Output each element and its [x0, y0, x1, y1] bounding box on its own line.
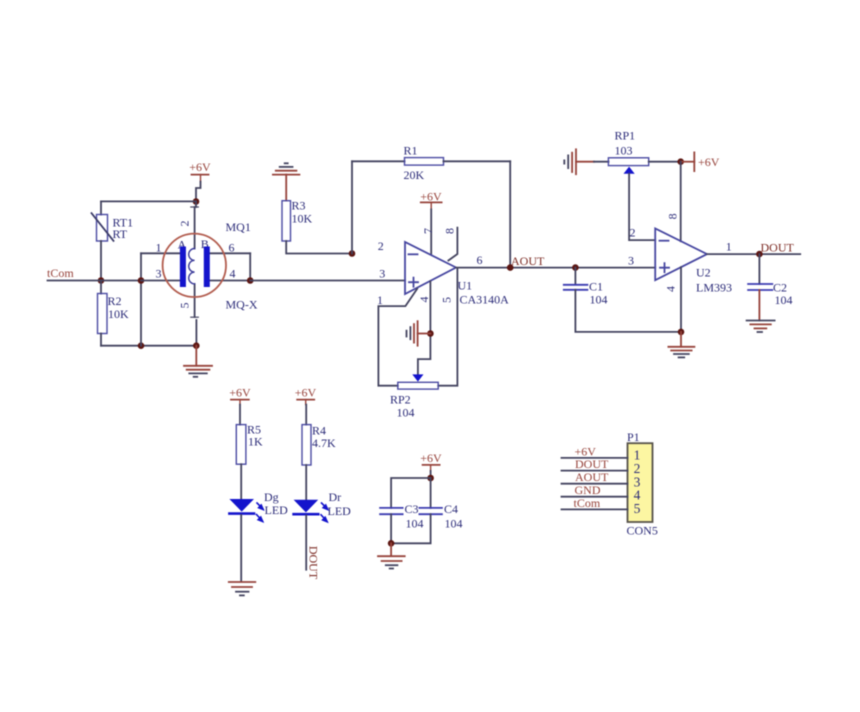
resistor R3 [282, 199, 313, 242]
wire MQ1 pin 1 [141, 252, 180, 254]
wire pin4 to U1 pin3 [250, 280, 405, 282]
wire feedback top left [352, 160, 405, 162]
svg-text:P1: P1 [627, 430, 640, 444]
pin 5 end tick [191, 316, 199, 318]
svg-text:10K: 10K [108, 307, 129, 321]
wire U1 pin 4 to ground node [418, 281, 431, 375]
ground (left of RP1, pointing left) [564, 149, 608, 174]
U1 plus input mark [409, 278, 418, 287]
thermistor RT1 [92, 213, 134, 241]
svg-text:+6V: +6V [229, 386, 251, 400]
svg-text:104: 104 [397, 406, 415, 420]
wire P1 pin 2 [562, 470, 628, 472]
wire MQ1 pin 5 (vertical below sensor) [195, 284, 197, 346]
wire bottom horizontal to ground [101, 345, 196, 347]
wire feedback right vertical to AOUT [509, 161, 511, 267]
wire R5 to LED Dg [240, 464, 242, 499]
wire C1 top stub [574, 268, 576, 285]
svg-text:RP2: RP2 [390, 393, 411, 407]
power +6V (above R5) [229, 386, 251, 405]
node AOUT junction [507, 264, 514, 271]
potentiometer RP1 [608, 129, 648, 166]
wire U1 pin 5 [438, 269, 457, 386]
svg-text:104: 104 [406, 517, 424, 531]
wire C4 bottom to C3 bottom node [391, 514, 431, 543]
svg-text:DOUT: DOUT [307, 546, 321, 580]
wire MQ1 pin 3 [141, 280, 180, 282]
wire C1 bottom to U2 pin4 node [575, 290, 681, 332]
sensor electrode bar B [204, 247, 210, 288]
svg-text:C4: C4 [444, 502, 458, 516]
svg-text:4: 4 [664, 286, 678, 292]
wire +6V to U1 pin 7 [430, 209, 432, 254]
node C1 junction on AOUT line [572, 264, 579, 271]
svg-text:U2: U2 [696, 266, 711, 280]
resistor R2 [98, 294, 130, 334]
wire U2 pin 4 [680, 267, 682, 332]
wire from +6V to node (jog) [196, 182, 201, 202]
svg-text:1K: 1K [248, 435, 263, 449]
ground (below U2 pin 4) [668, 332, 694, 358]
wire RT1 top stub [100, 201, 102, 214]
wire C3 bottom stub [390, 514, 392, 543]
svg-text:LED: LED [265, 503, 289, 517]
wire tCom [48, 280, 142, 282]
U2 plus input mark [660, 263, 669, 272]
svg-text:103: 103 [615, 144, 633, 158]
svg-text:10K: 10K [292, 212, 313, 226]
LED Dr [294, 490, 352, 522]
wire right branch vertical pin6-pin4 [249, 253, 251, 280]
svg-text:1: 1 [377, 293, 383, 307]
node U1 pin2 junction [349, 250, 356, 257]
wire C2 top stub [758, 254, 760, 284]
ground (below MQ1) [184, 346, 212, 377]
svg-text:DOUT: DOUT [575, 457, 609, 471]
svg-text:GND: GND [575, 483, 601, 497]
svg-text:4.7K: 4.7K [312, 436, 336, 450]
svg-text:AOUT: AOUT [511, 254, 545, 268]
wire U1 pin 1 (offset null) [378, 289, 417, 386]
svg-text:RP1: RP1 [615, 129, 636, 143]
svg-text:R3: R3 [292, 199, 306, 213]
ground (above R3, pointing up) [273, 163, 300, 200]
wire +6V down to C4 node [430, 471, 432, 478]
wire MQ1 pin 2 (vertical into sensor) [195, 202, 196, 249]
svg-text:3: 3 [156, 267, 162, 281]
svg-text:6: 6 [229, 241, 235, 255]
svg-text:Dr: Dr [329, 490, 342, 504]
wire P1 pin 1 [562, 457, 628, 459]
node bottom-left junction [138, 342, 145, 349]
svg-text:+6V: +6V [420, 190, 442, 204]
wire left branch vertical (pins 1/3) [140, 253, 142, 345]
wire U2 pin 8 [680, 162, 682, 242]
ground (below C3) [378, 543, 405, 568]
node: junction +6V / MQ1 pin2 / RT1 branch [193, 198, 200, 205]
svg-text:DOUT: DOUT [761, 241, 795, 255]
op-amp U2 triangle [655, 228, 707, 280]
power +6V (above U1 pin 7) [420, 190, 442, 210]
pin 2 end tick [191, 206, 199, 208]
svg-text:2: 2 [378, 239, 384, 253]
svg-text:AOUT: AOUT [575, 470, 609, 484]
svg-text:1: 1 [726, 240, 732, 254]
wire C2 bottom stub [758, 290, 760, 320]
svg-text:104: 104 [590, 293, 608, 307]
wire U1 pin 8 [448, 228, 457, 261]
svg-text:MQ-X: MQ-X [226, 298, 258, 312]
svg-text:+6V: +6V [698, 155, 720, 169]
resistor R5 [236, 423, 263, 465]
sensor MQ1 circle [163, 234, 226, 297]
svg-text:5: 5 [634, 501, 641, 516]
capacitor C1 [564, 280, 608, 307]
ground (below LED Dg) [229, 582, 256, 595]
node tCom junction [98, 277, 105, 284]
RP2 wiper arrow [412, 374, 423, 381]
svg-text:7: 7 [421, 228, 435, 234]
svg-text:1: 1 [156, 241, 162, 255]
wire C3 top branch [391, 478, 431, 508]
wire feedback top right [444, 160, 511, 162]
svg-text:+6V: +6V [295, 386, 317, 400]
wire P1 pin 3 [562, 483, 628, 485]
svg-text:3: 3 [379, 267, 385, 281]
U2 minus input mark [660, 240, 669, 242]
svg-text:104: 104 [775, 293, 793, 307]
svg-text:3: 3 [628, 254, 634, 268]
svg-text:104: 104 [445, 517, 463, 531]
svg-text:MQ1: MQ1 [226, 220, 251, 234]
wire top horizontal to RT1 [101, 200, 196, 202]
connector P1 body [627, 430, 658, 538]
wire P1 pin 4 [562, 496, 628, 498]
svg-text:5: 5 [178, 303, 192, 309]
power +6V (top left, above MQ1 pin 2) [189, 160, 211, 182]
RP1 wiper arrow [624, 167, 635, 174]
wire +6V to R5 [239, 405, 241, 425]
potentiometer RP2 [390, 382, 438, 419]
svg-text:+6V: +6V [420, 451, 442, 465]
wire RT1 to tCom node [100, 241, 102, 281]
svg-text:20K: 20K [404, 168, 425, 182]
wire U2 output pin 1 to DOUT [707, 253, 800, 255]
svg-text:LM393: LM393 [696, 281, 732, 295]
wire MQ1 pin 4 [210, 280, 251, 282]
node MQ1 pin3 junction [138, 277, 145, 284]
power +6V (above R4) [295, 386, 317, 405]
power +6V (right of RP1, rotated) [681, 152, 720, 171]
wire tCom node to R2 [100, 281, 102, 294]
svg-text:RT: RT [113, 227, 128, 241]
wire C4 top stub [430, 478, 432, 508]
svg-text:8: 8 [443, 228, 457, 234]
resistor R4 [302, 424, 336, 466]
op-amp U1 triangle [405, 242, 456, 294]
svg-text:tCom: tCom [574, 496, 601, 510]
LED Dg [229, 490, 288, 522]
sensor heater coil [189, 249, 195, 284]
svg-text:4: 4 [230, 267, 236, 281]
node ground junction below MQ1 [193, 342, 200, 349]
svg-text:C1: C1 [589, 280, 603, 294]
svg-text:2: 2 [630, 226, 636, 240]
sensor electrode bar A [180, 247, 186, 288]
svg-text:6: 6 [477, 253, 483, 267]
svg-text:+6V: +6V [189, 160, 211, 174]
svg-text:LED: LED [328, 504, 352, 518]
wire LED Dr to DOUT stub [305, 516, 307, 570]
svg-text:R1: R1 [404, 144, 418, 158]
wire U1 output pin 6 [456, 267, 655, 269]
power +6V (above C3/C4) [420, 451, 442, 471]
capacitor C4 [419, 502, 462, 531]
wire R2 bottom [100, 334, 102, 346]
svg-text:CON5: CON5 [627, 524, 658, 538]
svg-text:4: 4 [417, 297, 431, 303]
svg-text:2: 2 [178, 221, 192, 227]
svg-text:tCom: tCom [47, 266, 74, 280]
node RP1 / +6V / U2 pin8 junction [677, 158, 684, 165]
ground (left of U1 pin 4, pointing left) [407, 321, 431, 346]
svg-text:C3: C3 [405, 502, 419, 516]
ground (below C2) [747, 321, 775, 333]
node U1 pin4 / ground junction [427, 330, 434, 337]
svg-text:5: 5 [440, 297, 454, 303]
node C3/C4 bottom junction [388, 540, 395, 547]
svg-text:8: 8 [666, 213, 680, 219]
U1 minus input mark [409, 253, 418, 255]
wire P1 pin 5 [562, 508, 628, 510]
wire RP1 right to +6V node [649, 161, 681, 163]
resistor R1 [404, 144, 444, 183]
node MQ1 pin4 junction [247, 277, 254, 284]
wire +6V to R4 [305, 405, 307, 425]
wire MQ1 pin 6 [210, 252, 251, 254]
svg-text:R2: R2 [108, 294, 122, 308]
capacitor C3 [380, 502, 423, 531]
wire R3 bottom to U1 pin2 [286, 241, 352, 254]
wire LED Dg to ground [240, 515, 242, 582]
wire RP1 wiper to U2 pin 2 [629, 174, 655, 240]
svg-text:CA3140A: CA3140A [460, 293, 510, 307]
wire feedback left vertical [351, 161, 353, 253]
svg-text:Dg: Dg [264, 490, 279, 504]
node C1 / U2 pin4 / ground junction [678, 329, 685, 336]
capacitor C2 [748, 281, 792, 308]
wire R4 to LED Dr [305, 465, 307, 500]
node C3/C4 top junction [427, 475, 434, 482]
svg-text:U1: U1 [458, 279, 473, 293]
node DOUT junction [756, 251, 763, 258]
